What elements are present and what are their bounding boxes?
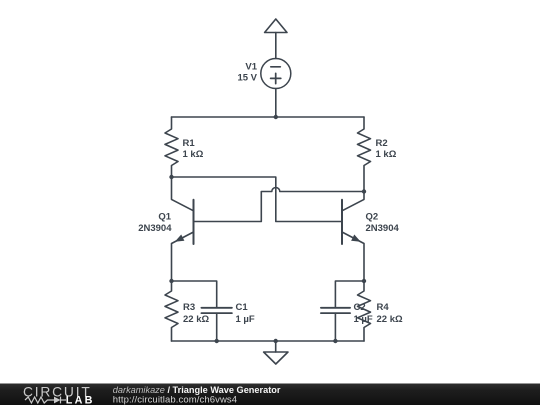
node R1 bottom (169, 175, 173, 179)
svg-text:Q1: Q1 (158, 212, 171, 223)
node ground (274, 339, 278, 343)
svg-text:22 kΩ: 22 kΩ (377, 314, 403, 325)
transistor Q1 (172, 177, 194, 281)
svg-text:C2: C2 (354, 302, 366, 313)
svg-text:http://circuitlab.com/ch6vws4: http://circuitlab.com/ch6vws4 (113, 394, 237, 405)
svg-text:1 µF: 1 µF (236, 314, 255, 325)
resistor R4 (358, 281, 371, 341)
wire R2 to Q1 base with hop (194, 188, 365, 222)
svg-text:Q2: Q2 (366, 212, 379, 223)
svg-text:R2: R2 (376, 138, 388, 149)
logo resistor-diode glyph (25, 397, 66, 404)
capacitor C2 (321, 281, 364, 341)
svg-text:1 kΩ: 1 kΩ (183, 149, 204, 160)
svg-text:2N3904: 2N3904 (366, 223, 400, 234)
wire (275, 89, 277, 118)
power flag V+ (265, 19, 287, 33)
svg-text:15 V: 15 V (237, 73, 257, 84)
svg-text:LAB: LAB (66, 394, 95, 405)
svg-text:R1: R1 (183, 138, 196, 149)
node C2 bottom (333, 339, 337, 343)
wire top rail (172, 116, 365, 118)
footer bar (0, 384, 540, 405)
capacitor C1 (172, 281, 232, 341)
ground (264, 341, 288, 364)
junction dots (169, 115, 366, 343)
resistor R2 (358, 117, 371, 192)
transistor Q2 (342, 192, 364, 282)
svg-text:1 µF: 1 µF (354, 314, 373, 325)
node Q1 emitter (169, 279, 173, 283)
svg-text:C1: C1 (236, 302, 249, 313)
node R2 bottom (362, 189, 366, 193)
wire R1 to Q2 base (172, 177, 343, 222)
svg-text:22 kΩ: 22 kΩ (183, 314, 209, 325)
voltage source V1 (261, 59, 291, 89)
node C1 bottom (215, 339, 219, 343)
wire bottom rail (172, 340, 365, 342)
svg-text:2N3904: 2N3904 (138, 223, 172, 234)
resistor R3 (165, 281, 178, 341)
svg-text:R4: R4 (377, 302, 390, 313)
svg-text:V1: V1 (245, 62, 257, 73)
svg-text:R3: R3 (183, 302, 195, 313)
node Q2 emitter (362, 279, 366, 283)
resistor R1 (165, 117, 178, 177)
node top rail (274, 115, 278, 119)
wire (275, 33, 277, 59)
svg-text:1 kΩ: 1 kΩ (376, 149, 397, 160)
